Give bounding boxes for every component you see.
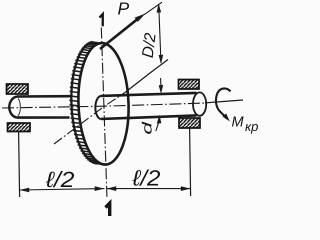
svg-text:D/2: D/2 — [140, 32, 160, 59]
dimension line l/2 left — [20, 189, 105, 190]
svg-text:P: P — [118, 0, 130, 19]
label 1 (top) — [100, 14, 103, 26]
radius line through disc (diagonal dash-dot) — [54, 93, 125, 145]
svg-text:кр: кр — [245, 119, 258, 134]
bearing support left-top hatched block — [7, 84, 29, 94]
disc (pulley) back rim arc — [69, 42, 98, 165]
dimension D/2 double arrow — [159, 5, 161, 64]
label 1 (bottom) — [106, 203, 110, 216]
bearing support right-bottom hatched block — [179, 118, 200, 128]
force P arrow (thick) — [100, 14, 146, 50]
dimension line l/2 right — [107, 188, 191, 190]
shaft left section with rounded left end cap — [9, 96, 70, 117]
torque arrow Mkr (curl) — [216, 88, 231, 121]
section line 1-1 (vertical dash-dot) — [101, 28, 107, 200]
disc (pulley) front face ellipse — [76, 42, 130, 165]
svg-text:М: М — [232, 115, 245, 131]
shaft right end cap ellipse — [193, 92, 206, 115]
shaft centerline (horizontal dash-dot axis) — [2, 103, 204, 108]
extension line left (from bearing to dimension line) — [19, 132, 20, 197]
bearing support left-bottom hatched block — [8, 123, 31, 132]
D/2 lower reference line (solid extension of radius) — [125, 60, 168, 93]
svg-text:d: d — [139, 121, 154, 134]
axis extension line through torque arrow — [205, 100, 243, 103]
extension line right — [190, 129, 191, 197]
dimension d arrows — [156, 78, 161, 131]
shaft right section emerging from disc face with hub arc — [95, 93, 196, 119]
disc rim hatch rungs — [67, 41, 104, 165]
bearing support right-top hatched block — [179, 80, 200, 90]
svg-text:ℓ/2: ℓ/2 — [45, 167, 75, 192]
svg-text:ℓ/2: ℓ/2 — [131, 166, 160, 191]
P line thin extension — [144, 2, 162, 15]
